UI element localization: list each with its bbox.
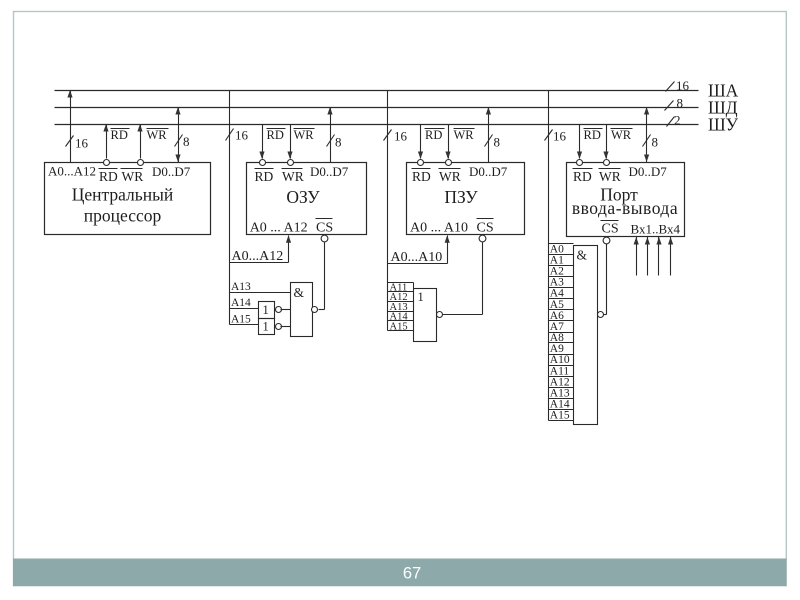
svg-text:16: 16 <box>553 129 567 144</box>
svg-text:RD: RD <box>584 128 601 142</box>
svg-text:ПЗУ: ПЗУ <box>444 187 478 207</box>
bus ШД (data bus) <box>55 107 699 109</box>
svg-text:A0 ... A10: A0 ... A10 <box>410 220 468 235</box>
wire: AND gate output to ОЗУ CS <box>319 243 325 310</box>
svg-text:WR: WR <box>611 128 632 142</box>
svg-text:RD: RD <box>412 169 431 184</box>
node A12 (label + cell line) <box>549 376 574 388</box>
wire: ПЗУ WR input from ШУ <box>445 125 450 160</box>
svg-text:ввода-вывода: ввода-вывода <box>572 198 678 218</box>
node A4 (label + cell line) <box>549 288 574 300</box>
wire: CPU RD output to ШУ <box>103 124 108 159</box>
pin circle: ПЗУ RD <box>418 160 424 166</box>
svg-text:WR: WR <box>294 128 315 142</box>
svg-text:1: 1 <box>263 320 269 334</box>
svg-text:16: 16 <box>676 78 690 93</box>
порт AND gate output circle <box>598 312 604 318</box>
порт data width slash <box>643 135 651 147</box>
inverter 1 output circle <box>276 307 282 313</box>
node A13 (label + cell line) <box>388 302 414 313</box>
inverter gate 1 (A14) <box>259 302 275 319</box>
node A7 (label + cell line) <box>549 321 574 333</box>
node A14 (label + wire to inverter) <box>230 297 259 309</box>
node A6 (label + cell line) <box>549 310 574 322</box>
pin circle: порт CS <box>603 237 610 244</box>
node A3 (label + cell line) <box>549 277 574 289</box>
node: A0...A10 branch to ПЗУ (label + wire with arrow) <box>388 235 450 265</box>
inverter 2 output circle <box>276 324 282 330</box>
node A2 (label + cell line) <box>549 266 574 278</box>
wire: NOT gate output to ПЗУ CS <box>443 243 483 315</box>
svg-text:A13: A13 <box>231 281 251 293</box>
bus ША width slash <box>666 82 675 92</box>
node A15 (label + wire to inverter) <box>230 314 259 326</box>
svg-text:D0..D7: D0..D7 <box>152 164 191 179</box>
svg-text:D0..D7: D0..D7 <box>310 164 349 179</box>
ПЗУ decoder input cell top line <box>388 282 414 284</box>
AND gate (порт chip select decoder) <box>574 246 598 425</box>
pin circle: ОЗУ CS <box>321 235 328 242</box>
ПЗУ decoder cell right edge <box>413 283 415 289</box>
wire: CPU data bidirectional to ШД <box>175 107 180 163</box>
wire: порт RD input from ШУ <box>577 125 582 160</box>
svg-text:1: 1 <box>418 290 424 304</box>
label WR (CPU, with overbar) <box>147 128 169 142</box>
NOT gate (ПЗУ chip select decoder) <box>414 289 437 342</box>
bus ША (address bus) <box>55 90 699 92</box>
CPU data width slash <box>175 135 183 147</box>
svg-text:A0...A10: A0...A10 <box>391 250 443 265</box>
RAM block ОЗУ <box>247 163 367 236</box>
label WR (ПЗУ, with overbar) <box>454 128 475 142</box>
wire: address tap from ША down to ПЗУ decoder <box>387 91 389 331</box>
svg-text:WR: WR <box>454 128 475 142</box>
pin circle: ПЗУ WR <box>446 160 452 166</box>
pin circle: ПЗУ CS <box>479 235 486 242</box>
svg-text:A0...A12: A0...A12 <box>48 164 96 179</box>
wire: address tap from ША down to ОЗУ decoder <box>229 91 231 325</box>
svg-text:ШУ: ШУ <box>708 115 739 135</box>
svg-text:A0...A12: A0...A12 <box>232 249 284 264</box>
wire: ОЗУ data to ШД <box>327 107 332 163</box>
svg-text:A15: A15 <box>231 314 251 326</box>
node A15 (label + cell line) <box>388 321 414 332</box>
node A14 (label + cell line) <box>388 312 414 323</box>
node A1 (label + cell line) <box>549 255 574 267</box>
CPU block (Центральный процессор) <box>45 163 211 235</box>
svg-text:ОЗУ: ОЗУ <box>286 187 320 207</box>
pin circle: ОЗУ WR <box>288 160 294 166</box>
ОЗУ data width slash <box>327 135 335 147</box>
svg-text:D0..D7: D0..D7 <box>469 164 508 179</box>
input Вх2 arrow <box>645 237 650 276</box>
label RD (ПЗУ, with overbar) <box>425 128 445 142</box>
порт address width slash <box>545 130 553 141</box>
label RD (порт, with overbar) <box>584 128 603 142</box>
input Вх4 arrow <box>668 237 673 276</box>
node A13 (label + wire to AND gate) <box>230 281 291 293</box>
AND gate output circle <box>312 307 318 313</box>
wire: CPU WR output to ШУ <box>137 124 142 159</box>
svg-text:RD: RD <box>111 128 128 142</box>
svg-text:8: 8 <box>335 135 342 150</box>
svg-text:67: 67 <box>403 565 421 583</box>
node: A0...A12 branch to ОЗУ (label + wire with arrow) <box>230 235 292 264</box>
pin circle: порт RD <box>577 160 583 166</box>
node A13 (label + cell line) <box>549 387 574 399</box>
svg-text:8: 8 <box>183 134 190 149</box>
svg-text:8: 8 <box>494 135 501 150</box>
svg-text:RD: RD <box>573 169 592 184</box>
input Вх3 arrow <box>656 237 661 276</box>
ROM block ПЗУ <box>407 163 525 236</box>
svg-text:WR: WR <box>147 128 168 142</box>
NOT gate output circle <box>437 312 443 318</box>
порт decoder input cell top line <box>549 243 574 245</box>
svg-text:WR: WR <box>282 169 304 184</box>
wire: inverter 2 output to AND gate <box>281 326 291 328</box>
bus ШУ width slash <box>667 117 675 127</box>
AND gate (ОЗУ chip select decoder) <box>291 283 313 337</box>
node A9 (label + cell line) <box>549 343 574 355</box>
ОЗУ address width slash <box>226 129 234 141</box>
svg-text:Вх1..Вх4: Вх1..Вх4 <box>631 222 681 237</box>
svg-text:WR: WR <box>122 169 144 184</box>
svg-text:16: 16 <box>75 136 89 151</box>
wire: AND gate output to порт CS <box>604 244 607 315</box>
node A8 (label + cell line) <box>549 332 574 344</box>
label RD (ОЗУ, with overbar) <box>267 128 286 142</box>
svg-text:процессор: процессор <box>84 206 162 226</box>
node A14 (label + cell line) <box>549 399 574 411</box>
wire: inverter 1 output to AND gate <box>281 309 291 311</box>
label RD (CPU, with overbar) <box>111 128 130 142</box>
svg-text:16: 16 <box>235 128 249 143</box>
svg-text:WR: WR <box>439 169 461 184</box>
wire: ОЗУ RD input from ШУ <box>259 125 264 160</box>
CPU address width slash <box>66 136 74 147</box>
svg-text:RD: RD <box>267 128 284 142</box>
node A5 (label + cell line) <box>549 299 574 311</box>
wire: ПЗУ RD input from ШУ <box>418 125 423 160</box>
pin circle: CPU WR <box>138 160 144 166</box>
svg-text:16: 16 <box>394 129 408 144</box>
I/O port block (Порт ввода-вывода) <box>567 163 685 237</box>
svg-text:A15: A15 <box>550 410 570 422</box>
svg-text:Центральный: Центральный <box>72 185 174 205</box>
bus ШД width slash <box>665 101 674 111</box>
svg-text:A14: A14 <box>231 297 251 309</box>
bus ШУ (control bus) <box>55 124 699 126</box>
wire: порт WR input from ШУ <box>603 125 608 160</box>
svg-text:CS: CS <box>477 220 494 235</box>
svg-text:8: 8 <box>652 135 659 150</box>
svg-text:1: 1 <box>263 303 269 317</box>
wire: ПЗУ data to ШД <box>486 107 491 163</box>
pin circle: CPU RD <box>104 160 110 166</box>
svg-text:RD: RD <box>255 169 274 184</box>
svg-text:CS: CS <box>602 222 619 237</box>
inverter gate 2 (A15) <box>259 319 275 335</box>
input Вх1 arrow <box>634 237 639 276</box>
pin circle: порт WR <box>604 160 610 166</box>
node A0 (label + cell line) <box>549 243 574 255</box>
pin circle: ОЗУ RD <box>260 160 266 166</box>
svg-text:A0 ... A12: A0 ... A12 <box>250 220 308 235</box>
ПЗУ address width slash <box>384 130 392 141</box>
svg-text:&: & <box>577 248 588 263</box>
wire: ОЗУ WR input from ШУ <box>287 125 292 160</box>
wire: CPU address output to ША <box>67 90 72 163</box>
svg-text:CS: CS <box>316 220 333 235</box>
svg-text:2: 2 <box>674 113 681 128</box>
footer bar <box>13 559 786 587</box>
svg-text:RD: RD <box>99 169 118 184</box>
node A12 (label + cell line) <box>388 292 414 303</box>
svg-text:RD: RD <box>425 128 442 142</box>
label WR (порт, with overbar) <box>611 128 633 142</box>
svg-text:WR: WR <box>599 169 621 184</box>
node A15 (label + cell line) <box>549 410 574 422</box>
svg-text:8: 8 <box>677 96 684 111</box>
node A11 (label + cell line) <box>549 365 574 377</box>
svg-text:&: & <box>294 285 305 300</box>
node A11 (label + cell line) <box>388 282 414 293</box>
ПЗУ data width slash <box>485 135 493 147</box>
wire: address tap from ША down to порт decoder <box>548 91 550 421</box>
svg-text:D0..D7: D0..D7 <box>629 164 668 179</box>
node A10 (label + cell line) <box>549 354 574 366</box>
label WR (ОЗУ, with overbar) <box>294 128 315 142</box>
wire: порт data bidirectional to ШД <box>644 107 649 163</box>
